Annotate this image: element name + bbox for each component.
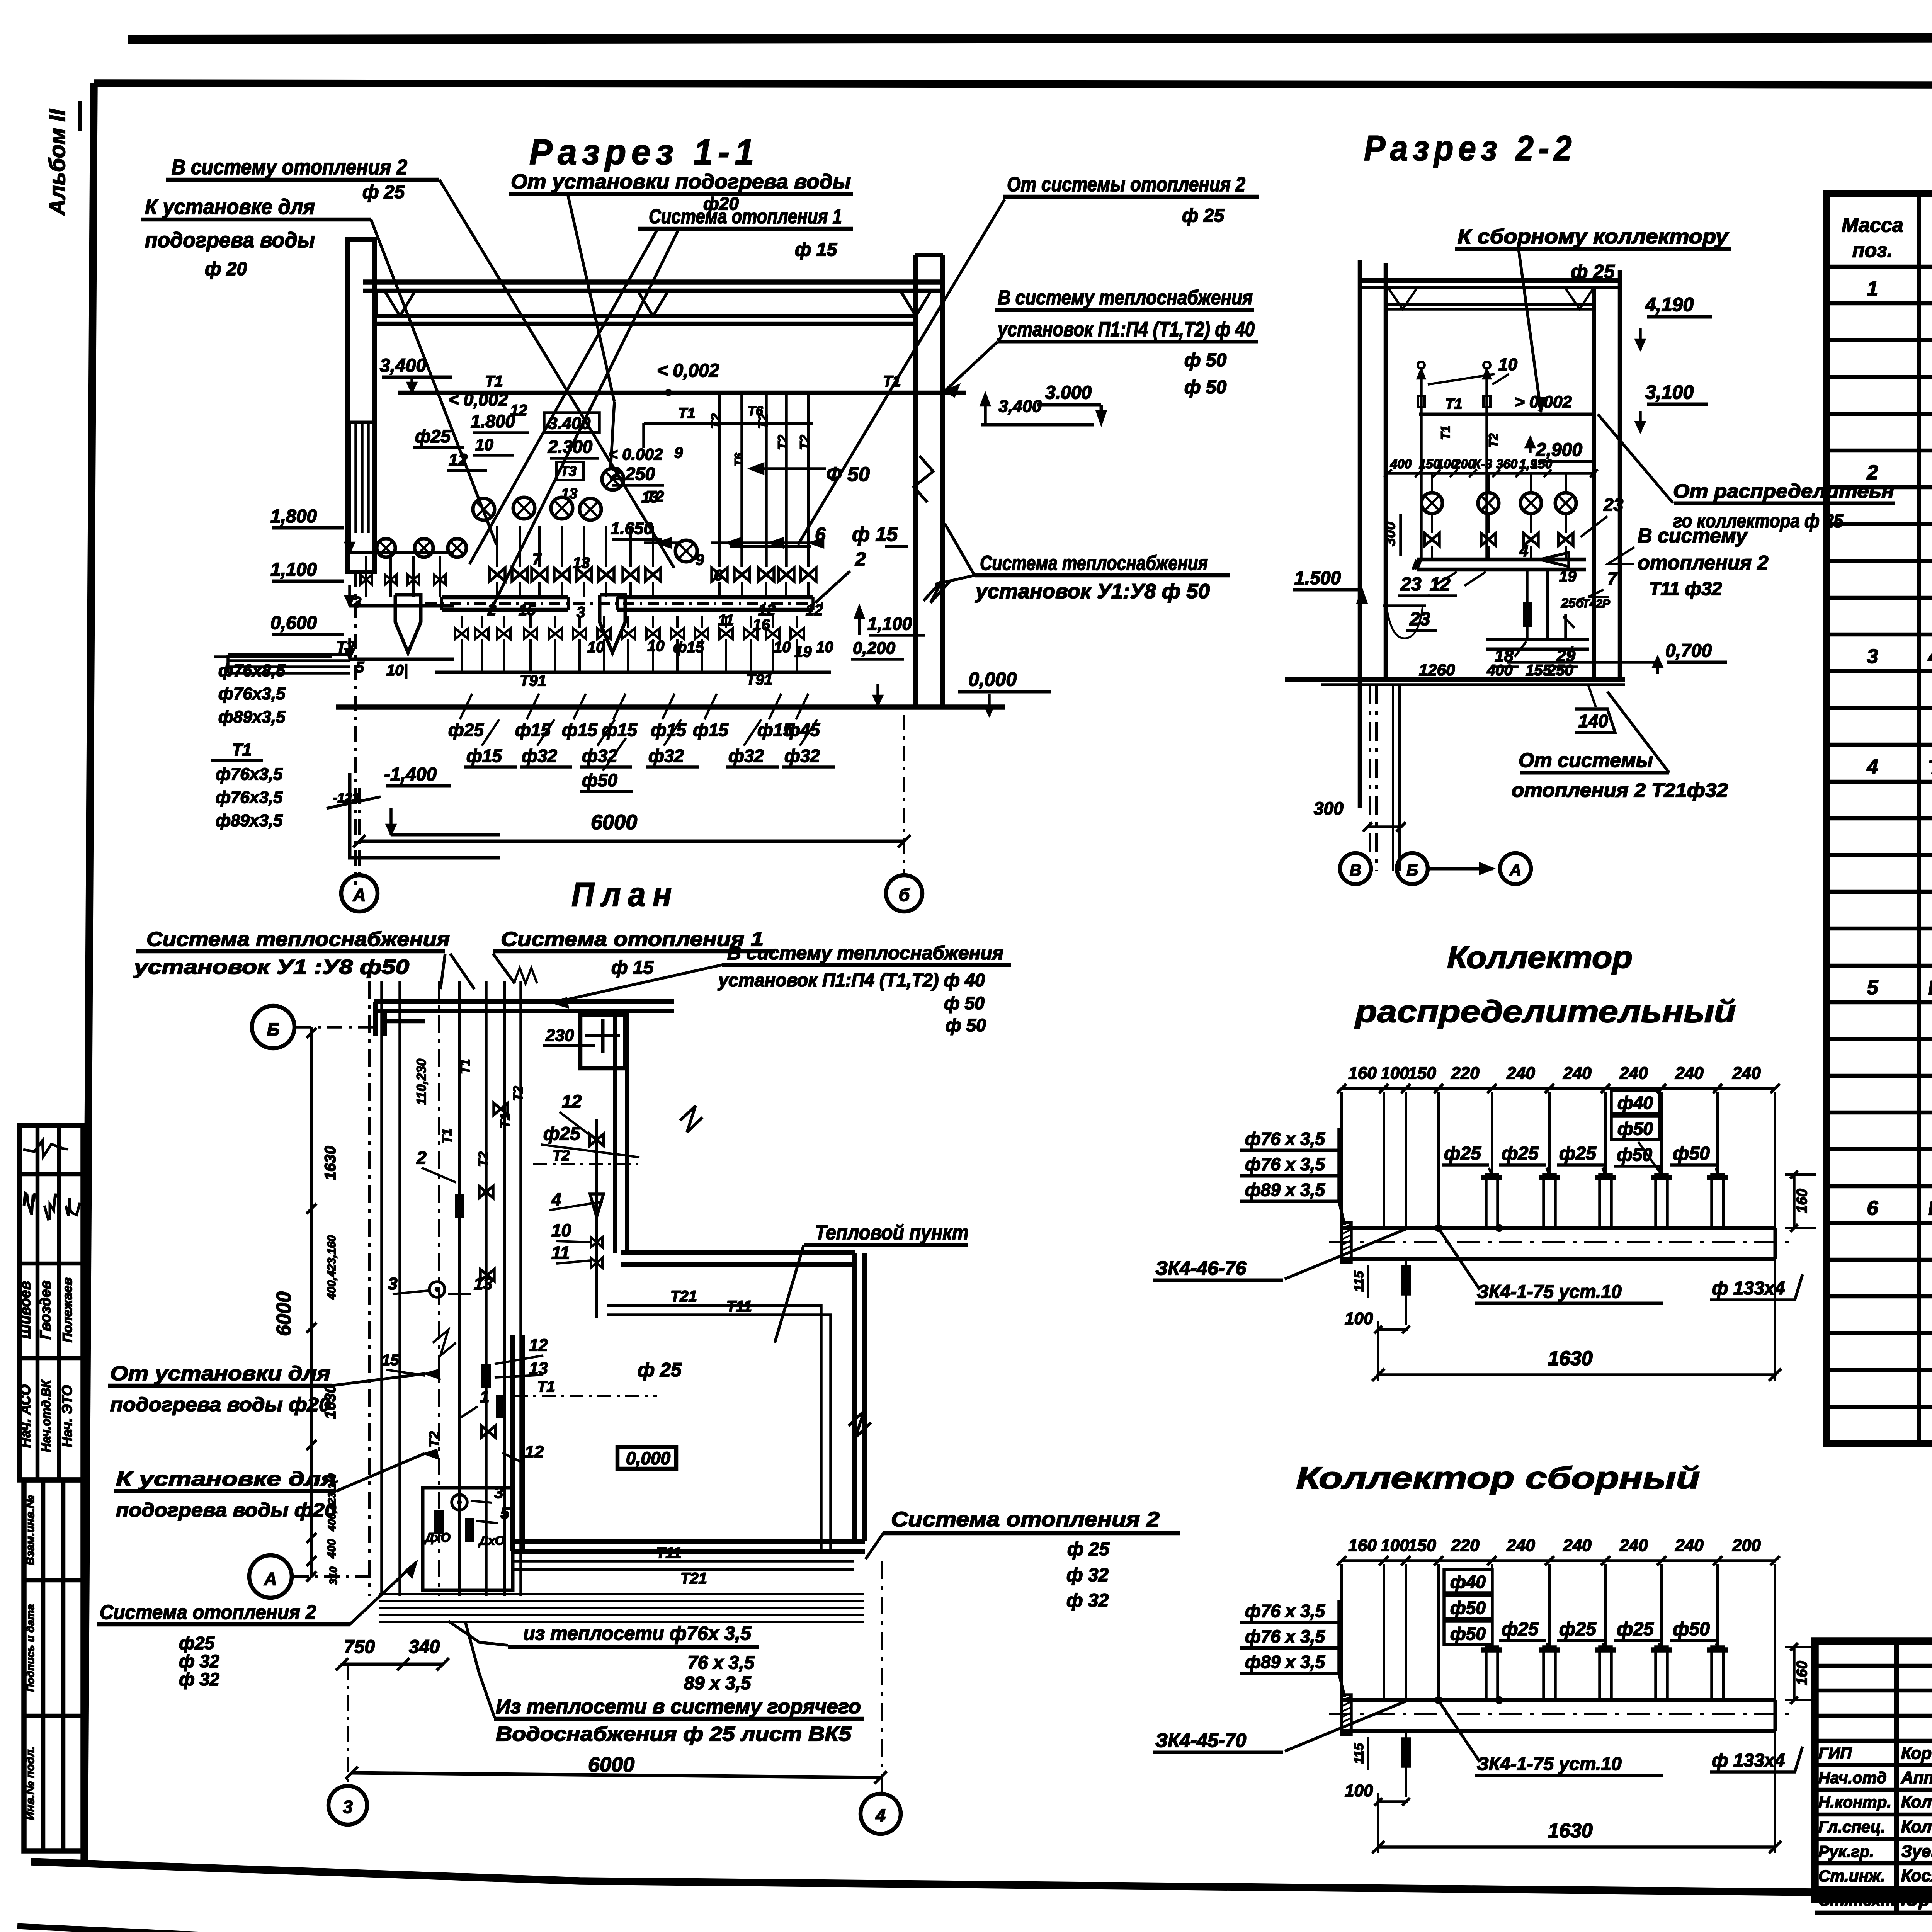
svg-text:установок П1:П4 (Т1,Т2) ф 40: установок П1:П4 (Т1,Т2) ф 40 [718, 970, 985, 991]
svg-text:160: 160 [1794, 1189, 1810, 1213]
svg-text:Система отопления 2: Система отопления 2 [100, 1601, 316, 1624]
svg-text:100: 100 [1345, 1781, 1373, 1800]
svg-text:ф50: ф50 [1617, 1119, 1653, 1139]
svg-text:3,400: 3,400 [998, 397, 1042, 416]
svg-text:10: 10 [551, 1220, 571, 1240]
svg-text:ф76 х 3,5: ф76 х 3,5 [1245, 1601, 1325, 1621]
svg-text:12: 12 [562, 1091, 582, 1111]
svg-text:Т6: Т6 [733, 453, 745, 466]
svg-text:400: 400 [1390, 457, 1412, 471]
svg-text:4: 4 [1519, 542, 1528, 560]
svg-text:ф15: ф15 [562, 720, 598, 740]
svg-text:Гл.спец.: Гл.спец. [1818, 1818, 1885, 1836]
svg-text:подогрева воды ф20: подогрева воды ф20 [116, 1499, 336, 1521]
svg-text:ф25: ф25 [179, 1633, 215, 1653]
svg-text:ф 32: ф 32 [1066, 1590, 1109, 1611]
svg-text:6: 6 [815, 524, 826, 545]
svg-text:100: 100 [1381, 1064, 1409, 1083]
svg-text:110,230: 110,230 [414, 1059, 429, 1105]
svg-text:Т2: Т2 [776, 435, 790, 450]
svg-text:240: 240 [1675, 1064, 1704, 1083]
svg-text:1,800: 1,800 [270, 506, 317, 527]
svg-text:76 х 3,5: 76 х 3,5 [687, 1653, 755, 1673]
svg-text:ф50: ф50 [1450, 1624, 1486, 1644]
svg-text:1260: 1260 [1419, 661, 1455, 679]
svg-text:Коллектор сборный: Коллектор сборный [1296, 1461, 1700, 1495]
svg-text:2: 2 [1867, 461, 1878, 484]
svg-text:распределительный: распределительный [1354, 994, 1736, 1029]
svg-text:2: 2 [855, 548, 866, 570]
svg-text:ЗК4-46-76: ЗК4-46-76 [1155, 1257, 1247, 1279]
svg-text:230: 230 [545, 1026, 574, 1045]
svg-text:Т1: Т1 [232, 740, 252, 759]
svg-text:установок У1:У8 ф 50: установок У1:У8 ф 50 [975, 580, 1210, 603]
svg-text:А: А [1509, 861, 1521, 879]
svg-text:0,000: 0,000 [626, 1448, 671, 1468]
svg-text:Т2: Т2 [1486, 433, 1500, 448]
svg-text:3: 3 [388, 1274, 397, 1293]
svg-text:ф 32: ф 32 [179, 1651, 219, 1671]
svg-text:Юрченко: Юрченко [1901, 1891, 1932, 1910]
svg-text:В систему теплоснабжения: В систему теплоснабжения [727, 942, 1003, 964]
svg-text:ф25: ф25 [1502, 1619, 1539, 1639]
svg-text:7: 7 [532, 551, 542, 568]
svg-text:1.500: 1.500 [1294, 568, 1341, 588]
svg-text:Ф 50: Ф 50 [826, 463, 870, 486]
svg-text:ДхО: ДхО [478, 1534, 505, 1548]
svg-text:ф 133х4: ф 133х4 [1712, 1278, 1785, 1299]
svg-text:Т21: Т21 [670, 1288, 697, 1305]
svg-text:340: 340 [409, 1637, 440, 1657]
svg-text:В систему теплоснабжения: В систему теплоснабжения [998, 286, 1253, 309]
svg-text:ф 50: ф 50 [944, 993, 985, 1013]
svg-text:ф50: ф50 [1673, 1143, 1710, 1164]
svg-text:Нач. ЭТО: Нач. ЭТО [59, 1385, 75, 1447]
svg-text:Т2: Т2 [709, 413, 723, 429]
svg-text:ф 15: ф 15 [795, 240, 838, 260]
svg-text:ф76х3,5: ф76х3,5 [216, 765, 283, 784]
svg-text:Шивоев: Шивоев [17, 1281, 34, 1339]
svg-text:отопления 2 Т21ф32: отопления 2 Т21ф32 [1512, 779, 1728, 801]
svg-text:Подпись и дата: Подпись и дата [24, 1604, 36, 1692]
svg-text:ф25: ф25 [1559, 1619, 1597, 1639]
svg-text:ф32: ф32 [648, 746, 684, 766]
svg-text:3: 3 [353, 594, 361, 611]
svg-text:19: 19 [794, 643, 812, 660]
svg-text:12: 12 [806, 602, 823, 619]
svg-text:ф 15: ф 15 [852, 523, 898, 546]
svg-text:250: 250 [1547, 662, 1573, 679]
svg-text:От системы: От системы [1519, 749, 1653, 772]
svg-text:ф25: ф25 [1617, 1619, 1654, 1639]
svg-text:240: 240 [1619, 1064, 1648, 1083]
svg-text:Н.контр.: Н.контр. [1818, 1793, 1891, 1811]
svg-text:140: 140 [1578, 711, 1608, 731]
svg-text:ТУ 26-07-1255-82: ТУ 26-07-1255-82 [1928, 756, 1932, 778]
svg-text:ф50: ф50 [1673, 1619, 1710, 1639]
svg-text:Из теплосети в систему горячег: Из теплосети в систему горячего [496, 1696, 861, 1718]
svg-text:10: 10 [647, 638, 665, 655]
svg-text:ф 50: ф 50 [1184, 350, 1227, 371]
svg-text:ф 20: ф 20 [205, 259, 247, 279]
svg-text:ф25: ф25 [415, 426, 451, 446]
svg-text:19: 19 [1559, 568, 1577, 585]
svg-text:От распределитеьн: От распределитеьн [1673, 480, 1894, 502]
svg-text:Водоснабжения ф 25 лист В: Водоснабжения ф 25 лист ВК5 [496, 1723, 852, 1745]
svg-text:б: б [899, 885, 910, 905]
svg-text:Т1: Т1 [537, 1378, 555, 1395]
svg-text:0,200: 0,200 [853, 639, 896, 658]
svg-text:6: 6 [1867, 1197, 1879, 1219]
svg-text:Т11 ф32: Т11 ф32 [1649, 579, 1722, 599]
svg-text:ф 25: ф 25 [1067, 1539, 1110, 1560]
svg-text:ГИП: ГИП [1818, 1744, 1852, 1762]
svg-text:ф76 х 3,5: ф76 х 3,5 [1245, 1626, 1325, 1646]
svg-text:А: А [352, 885, 366, 905]
svg-text:Разрез 1-1: Разрез 1-1 [529, 133, 759, 172]
svg-text:ф25: ф25 [1502, 1143, 1539, 1164]
svg-text:Зуева: Зуева [1901, 1842, 1932, 1861]
svg-text:1630: 1630 [1548, 1820, 1593, 1842]
svg-text:3,100: 3,100 [1645, 381, 1694, 403]
svg-text:0,600: 0,600 [270, 613, 317, 633]
svg-text:10: 10 [774, 639, 791, 656]
svg-text:Тепловой пункт: Тепловой пункт [815, 1221, 969, 1244]
svg-text:15: 15 [382, 1352, 399, 1369]
svg-text:300: 300 [1314, 798, 1344, 818]
svg-text:750: 750 [344, 1637, 375, 1657]
svg-text:ф 32: ф 32 [179, 1669, 219, 1689]
svg-text:Полежаев: Полежаев [60, 1277, 75, 1342]
svg-text:ф25: ф25 [448, 720, 484, 740]
svg-text:Система отопления 2: Система отопления 2 [891, 1508, 1160, 1531]
svg-text:От системы отопления 2: От системы отопления 2 [1007, 173, 1245, 196]
svg-text:1630: 1630 [1548, 1347, 1593, 1370]
svg-text:115: 115 [1352, 1743, 1366, 1764]
svg-text:1.800: 1.800 [471, 411, 515, 431]
svg-text:установок У1 :У8 ф50: установок У1 :У8 ф50 [133, 956, 409, 978]
svg-text:ф76х3,5: ф76х3,5 [218, 684, 286, 703]
svg-text:Т2: Т2 [798, 435, 812, 450]
svg-text:6000: 6000 [588, 1753, 634, 1776]
svg-text:ф 25: ф 25 [638, 1359, 682, 1381]
svg-text:Альбом II: Альбом II [45, 109, 70, 216]
svg-text:ф 25: ф 25 [1571, 261, 1615, 282]
svg-text:ф50: ф50 [1450, 1598, 1486, 1618]
svg-text:25б: 25б [1561, 596, 1584, 611]
svg-text:2: 2 [416, 1148, 427, 1168]
svg-text:ф76х8,5: ф76х8,5 [218, 661, 286, 680]
svg-text:Взам.инв.№: Взам.инв.№ [24, 1495, 37, 1565]
svg-text:150: 150 [1408, 1064, 1436, 1083]
svg-text:10: 10 [587, 639, 605, 656]
svg-text:ф32: ф32 [728, 746, 764, 766]
svg-text:ф 25: ф 25 [1182, 206, 1225, 226]
svg-text:ф32: ф32 [784, 746, 820, 766]
svg-text:Косякина: Косякина [1901, 1866, 1932, 1885]
svg-text:Система отопления 1: Система отопления 1 [649, 205, 842, 228]
svg-text:Коллектор: Коллектор [1447, 940, 1633, 975]
svg-text:13: 13 [641, 489, 659, 506]
svg-text:4.903-10 выпуск 8: 4.903-10 выпуск 8 [1928, 646, 1932, 667]
svg-text:10: 10 [475, 435, 493, 454]
svg-text:ГОСТ 8437-75: ГОСТ 8437-75 [1928, 1197, 1932, 1219]
svg-text:Нач. АСО: Нач. АСО [17, 1384, 33, 1448]
svg-text:В систему: В систему [1638, 525, 1748, 547]
svg-text:16: 16 [753, 616, 770, 633]
svg-text:4: 4 [875, 1805, 886, 1825]
svg-text:< 0,002: < 0,002 [657, 361, 719, 381]
svg-text:Разрез 2-2: Разрез 2-2 [1364, 129, 1577, 168]
svg-text:4,190: 4,190 [1645, 294, 1694, 315]
svg-text:12: 12 [525, 1442, 544, 1461]
svg-text:Т1: Т1 [498, 1113, 512, 1128]
svg-text:Т2: Т2 [426, 1431, 442, 1447]
svg-text:11: 11 [718, 612, 734, 629]
svg-text:ф25: ф25 [1559, 1143, 1597, 1164]
svg-text:В систему отопления 2: В систему отопления 2 [172, 155, 407, 179]
svg-text:Т1: Т1 [678, 405, 695, 422]
svg-text:9: 9 [674, 444, 683, 461]
svg-text:ф89 х 3,5: ф89 х 3,5 [1245, 1652, 1325, 1672]
svg-text:ф15: ф15 [693, 720, 729, 740]
svg-text:От установки подогрева воды: От установки подогрева воды [511, 170, 851, 193]
svg-text:115: 115 [1352, 1270, 1366, 1292]
svg-text:240: 240 [1675, 1536, 1704, 1555]
svg-text:ф89х3,5: ф89х3,5 [218, 707, 286, 726]
svg-text:Т11: Т11 [656, 1544, 682, 1561]
svg-text:Рук.гр.: Рук.гр. [1818, 1842, 1874, 1861]
svg-text:Б: Б [267, 1019, 280, 1039]
svg-text:240: 240 [1732, 1064, 1761, 1083]
svg-text:ЗК4-1-75 уст.10: ЗК4-1-75 уст.10 [1477, 1282, 1622, 1302]
svg-text:ЗК4-45-70: ЗК4-45-70 [1155, 1730, 1246, 1751]
svg-text:1630: 1630 [322, 1146, 339, 1180]
svg-text:ф40: ф40 [1450, 1572, 1486, 1592]
svg-text:подогрева воды: подогрева воды [145, 228, 315, 252]
svg-text:Инв.№ подл.: Инв.№ подл. [24, 1746, 37, 1820]
svg-text:поз.: поз. [1852, 239, 1893, 262]
svg-text:220: 220 [1451, 1536, 1480, 1555]
svg-text:Т2: Т2 [476, 1151, 491, 1167]
svg-text:ф25: ф25 [543, 1124, 581, 1144]
svg-text:150: 150 [1408, 1536, 1436, 1555]
svg-text:4: 4 [1867, 756, 1878, 778]
svg-text:Система теплоснабжения: Система теплоснабжения [146, 928, 450, 951]
svg-text:3: 3 [343, 1797, 353, 1817]
svg-text:Т6: Т6 [748, 404, 764, 418]
svg-text:400,423,160: 400,423,160 [325, 1235, 338, 1300]
svg-text:К сборному коллектору: К сборному коллектору [1458, 225, 1729, 248]
svg-text:От установки для: От установки для [110, 1362, 330, 1385]
svg-text:Т42Р: Т42Р [1582, 597, 1611, 610]
svg-text:ф15: ф15 [466, 746, 502, 766]
svg-text:1: 1 [480, 1388, 489, 1406]
svg-text:Т1: Т1 [1439, 425, 1452, 440]
svg-text:ф32: ф32 [522, 746, 557, 766]
svg-text:400: 400 [1486, 662, 1513, 679]
svg-text:Т11: Т11 [726, 1298, 752, 1315]
svg-text:Аппатов: Аппатов [1901, 1768, 1932, 1787]
svg-text:7: 7 [1607, 569, 1618, 588]
svg-text:5: 5 [355, 659, 364, 676]
svg-text:ф76 х 3,5: ф76 х 3,5 [1245, 1154, 1325, 1174]
svg-text:План: План [571, 875, 679, 913]
svg-text:240: 240 [1506, 1536, 1535, 1555]
svg-text:0,700: 0,700 [1665, 641, 1712, 661]
svg-text:3: 3 [1867, 645, 1878, 668]
svg-text:отопления 2: отопления 2 [1638, 552, 1769, 574]
svg-text:0,000: 0,000 [968, 668, 1017, 690]
svg-text:Нач.отд.ВК: Нач.отд.ВК [39, 1379, 53, 1452]
svg-text:6000: 6000 [591, 811, 637, 834]
svg-text:Т1: Т1 [458, 1059, 473, 1074]
svg-text:160: 160 [1794, 1661, 1810, 1685]
svg-text:ф15: ф15 [515, 720, 551, 740]
svg-text:300: 300 [1382, 522, 1398, 546]
svg-text:В: В [1350, 861, 1361, 879]
svg-text:ф89х3,5: ф89х3,5 [216, 811, 283, 830]
svg-text:6: 6 [714, 567, 723, 584]
svg-text:10: 10 [1498, 355, 1517, 374]
svg-text:Колбаско: Колбаско [1901, 1793, 1932, 1811]
svg-text:400: 400 [325, 1539, 338, 1559]
svg-text:Т1: Т1 [1445, 396, 1462, 412]
svg-text:100: 100 [1381, 1536, 1409, 1555]
svg-text:3.000: 3.000 [1045, 383, 1092, 403]
svg-text:310: 310 [327, 1566, 339, 1585]
svg-text:К установке для: К установке для [116, 1468, 336, 1490]
svg-text:Гвоздев: Гвоздев [37, 1280, 54, 1339]
svg-text:ф76х3,5: ф76х3,5 [216, 788, 283, 807]
svg-text:ф25: ф25 [1444, 1143, 1481, 1164]
svg-text:К установке для: К установке для [145, 195, 315, 219]
svg-text:3: 3 [577, 604, 585, 621]
svg-text:Колбаско: Колбаско [1901, 1817, 1932, 1836]
svg-text:-1,400: -1,400 [384, 764, 437, 785]
svg-text:160: 160 [1348, 1536, 1377, 1555]
svg-text:ф15: ф15 [673, 639, 704, 656]
svg-text:Нач.отд: Нач.отд [1818, 1769, 1887, 1787]
svg-text:11: 11 [551, 1243, 570, 1263]
svg-text:установок П1:П4 (Т1,Т2) ф 40: установок П1:П4 (Т1,Т2) ф 40 [997, 318, 1255, 341]
svg-text:6000: 6000 [273, 1291, 295, 1336]
svg-text:ДхО: ДхО [424, 1531, 451, 1544]
svg-text:89 х 3,5: 89 х 3,5 [684, 1673, 752, 1694]
svg-text:ЗК4-1-75 уст.10: ЗК4-1-75 уст.10 [1477, 1754, 1622, 1774]
svg-text:12: 12 [758, 602, 776, 619]
svg-text:ф 32: ф 32 [1066, 1565, 1109, 1585]
svg-text:10: 10 [816, 639, 833, 656]
svg-text:ГОСТ 10926-75: ГОСТ 10926-75 [1928, 977, 1932, 998]
svg-text:ф 15: ф 15 [611, 957, 654, 978]
svg-text:5: 5 [1867, 976, 1879, 999]
svg-text:160: 160 [1348, 1064, 1377, 1083]
svg-text:200: 200 [1732, 1536, 1761, 1555]
svg-text:из теплосети ф76х 3,5: из теплосети ф76х 3,5 [523, 1622, 752, 1644]
svg-text:ф40: ф40 [1617, 1093, 1653, 1113]
svg-text:Т91: Т91 [746, 671, 773, 688]
svg-text:< 0,002: < 0,002 [448, 389, 508, 410]
svg-text:Ст.техн.: Ст.техн. [1818, 1891, 1895, 1909]
svg-text:Система отопления 1: Система отопления 1 [501, 928, 764, 951]
svg-text:240: 240 [1506, 1064, 1535, 1083]
svg-text:4: 4 [551, 1189, 561, 1209]
svg-text:Коростелев: Коростелев [1901, 1744, 1932, 1763]
svg-text:Т2: Т2 [511, 1086, 526, 1101]
svg-text:ф 25: ф 25 [362, 182, 405, 202]
svg-text:подогрева воды ф20: подогрева воды ф20 [110, 1394, 330, 1415]
svg-text:240: 240 [1619, 1536, 1648, 1555]
svg-text:ф50: ф50 [582, 770, 617, 790]
svg-text:1,100: 1,100 [867, 614, 912, 634]
svg-text:23: 23 [1603, 495, 1624, 515]
svg-text:Т2: Т2 [553, 1148, 570, 1164]
svg-text:ф 50: ф 50 [946, 1015, 986, 1035]
svg-text:ф 50: ф 50 [1184, 377, 1227, 398]
svg-text:13: 13 [474, 1274, 493, 1293]
svg-text:Т1: Т1 [485, 373, 503, 390]
svg-text:100: 100 [1345, 1309, 1373, 1328]
svg-text:Масса: Масса [1842, 214, 1903, 236]
svg-text:23: 23 [1400, 574, 1422, 595]
svg-text:240: 240 [1563, 1064, 1592, 1083]
svg-text:Т91: Т91 [520, 672, 546, 689]
svg-text:< 0.002: < 0.002 [608, 445, 663, 463]
svg-text:Т2: Т2 [336, 638, 355, 656]
svg-text:ф 133х4: ф 133х4 [1712, 1750, 1785, 1771]
svg-text:ф89 х 3,5: ф89 х 3,5 [1245, 1180, 1325, 1200]
svg-text:13: 13 [573, 554, 590, 571]
svg-text:15: 15 [519, 602, 536, 619]
svg-text:Т1: Т1 [440, 1128, 454, 1144]
svg-text:А: А [264, 1569, 277, 1589]
svg-text:10|: 10| [386, 662, 408, 679]
svg-text:ф76 х 3,5: ф76 х 3,5 [1245, 1129, 1325, 1149]
svg-text:1,100: 1,100 [270, 560, 317, 580]
svg-text:Ст.инж.: Ст.инж. [1818, 1867, 1885, 1885]
svg-text:Система теплоснабжения: Система теплоснабжения [980, 552, 1208, 575]
svg-text:12: 12 [510, 402, 527, 419]
svg-text:3,400: 3,400 [380, 355, 426, 376]
svg-text:220: 220 [1451, 1064, 1480, 1083]
svg-text:Т21: Т21 [680, 1570, 707, 1587]
svg-text:5: 5 [500, 1504, 510, 1522]
svg-text:150: 150 [1531, 457, 1553, 471]
svg-text:240: 240 [1563, 1536, 1592, 1555]
svg-text:Б: Б [1406, 861, 1418, 879]
svg-text:12: 12 [529, 1336, 548, 1355]
svg-text:9: 9 [696, 551, 704, 568]
svg-text:1: 1 [1867, 277, 1878, 300]
